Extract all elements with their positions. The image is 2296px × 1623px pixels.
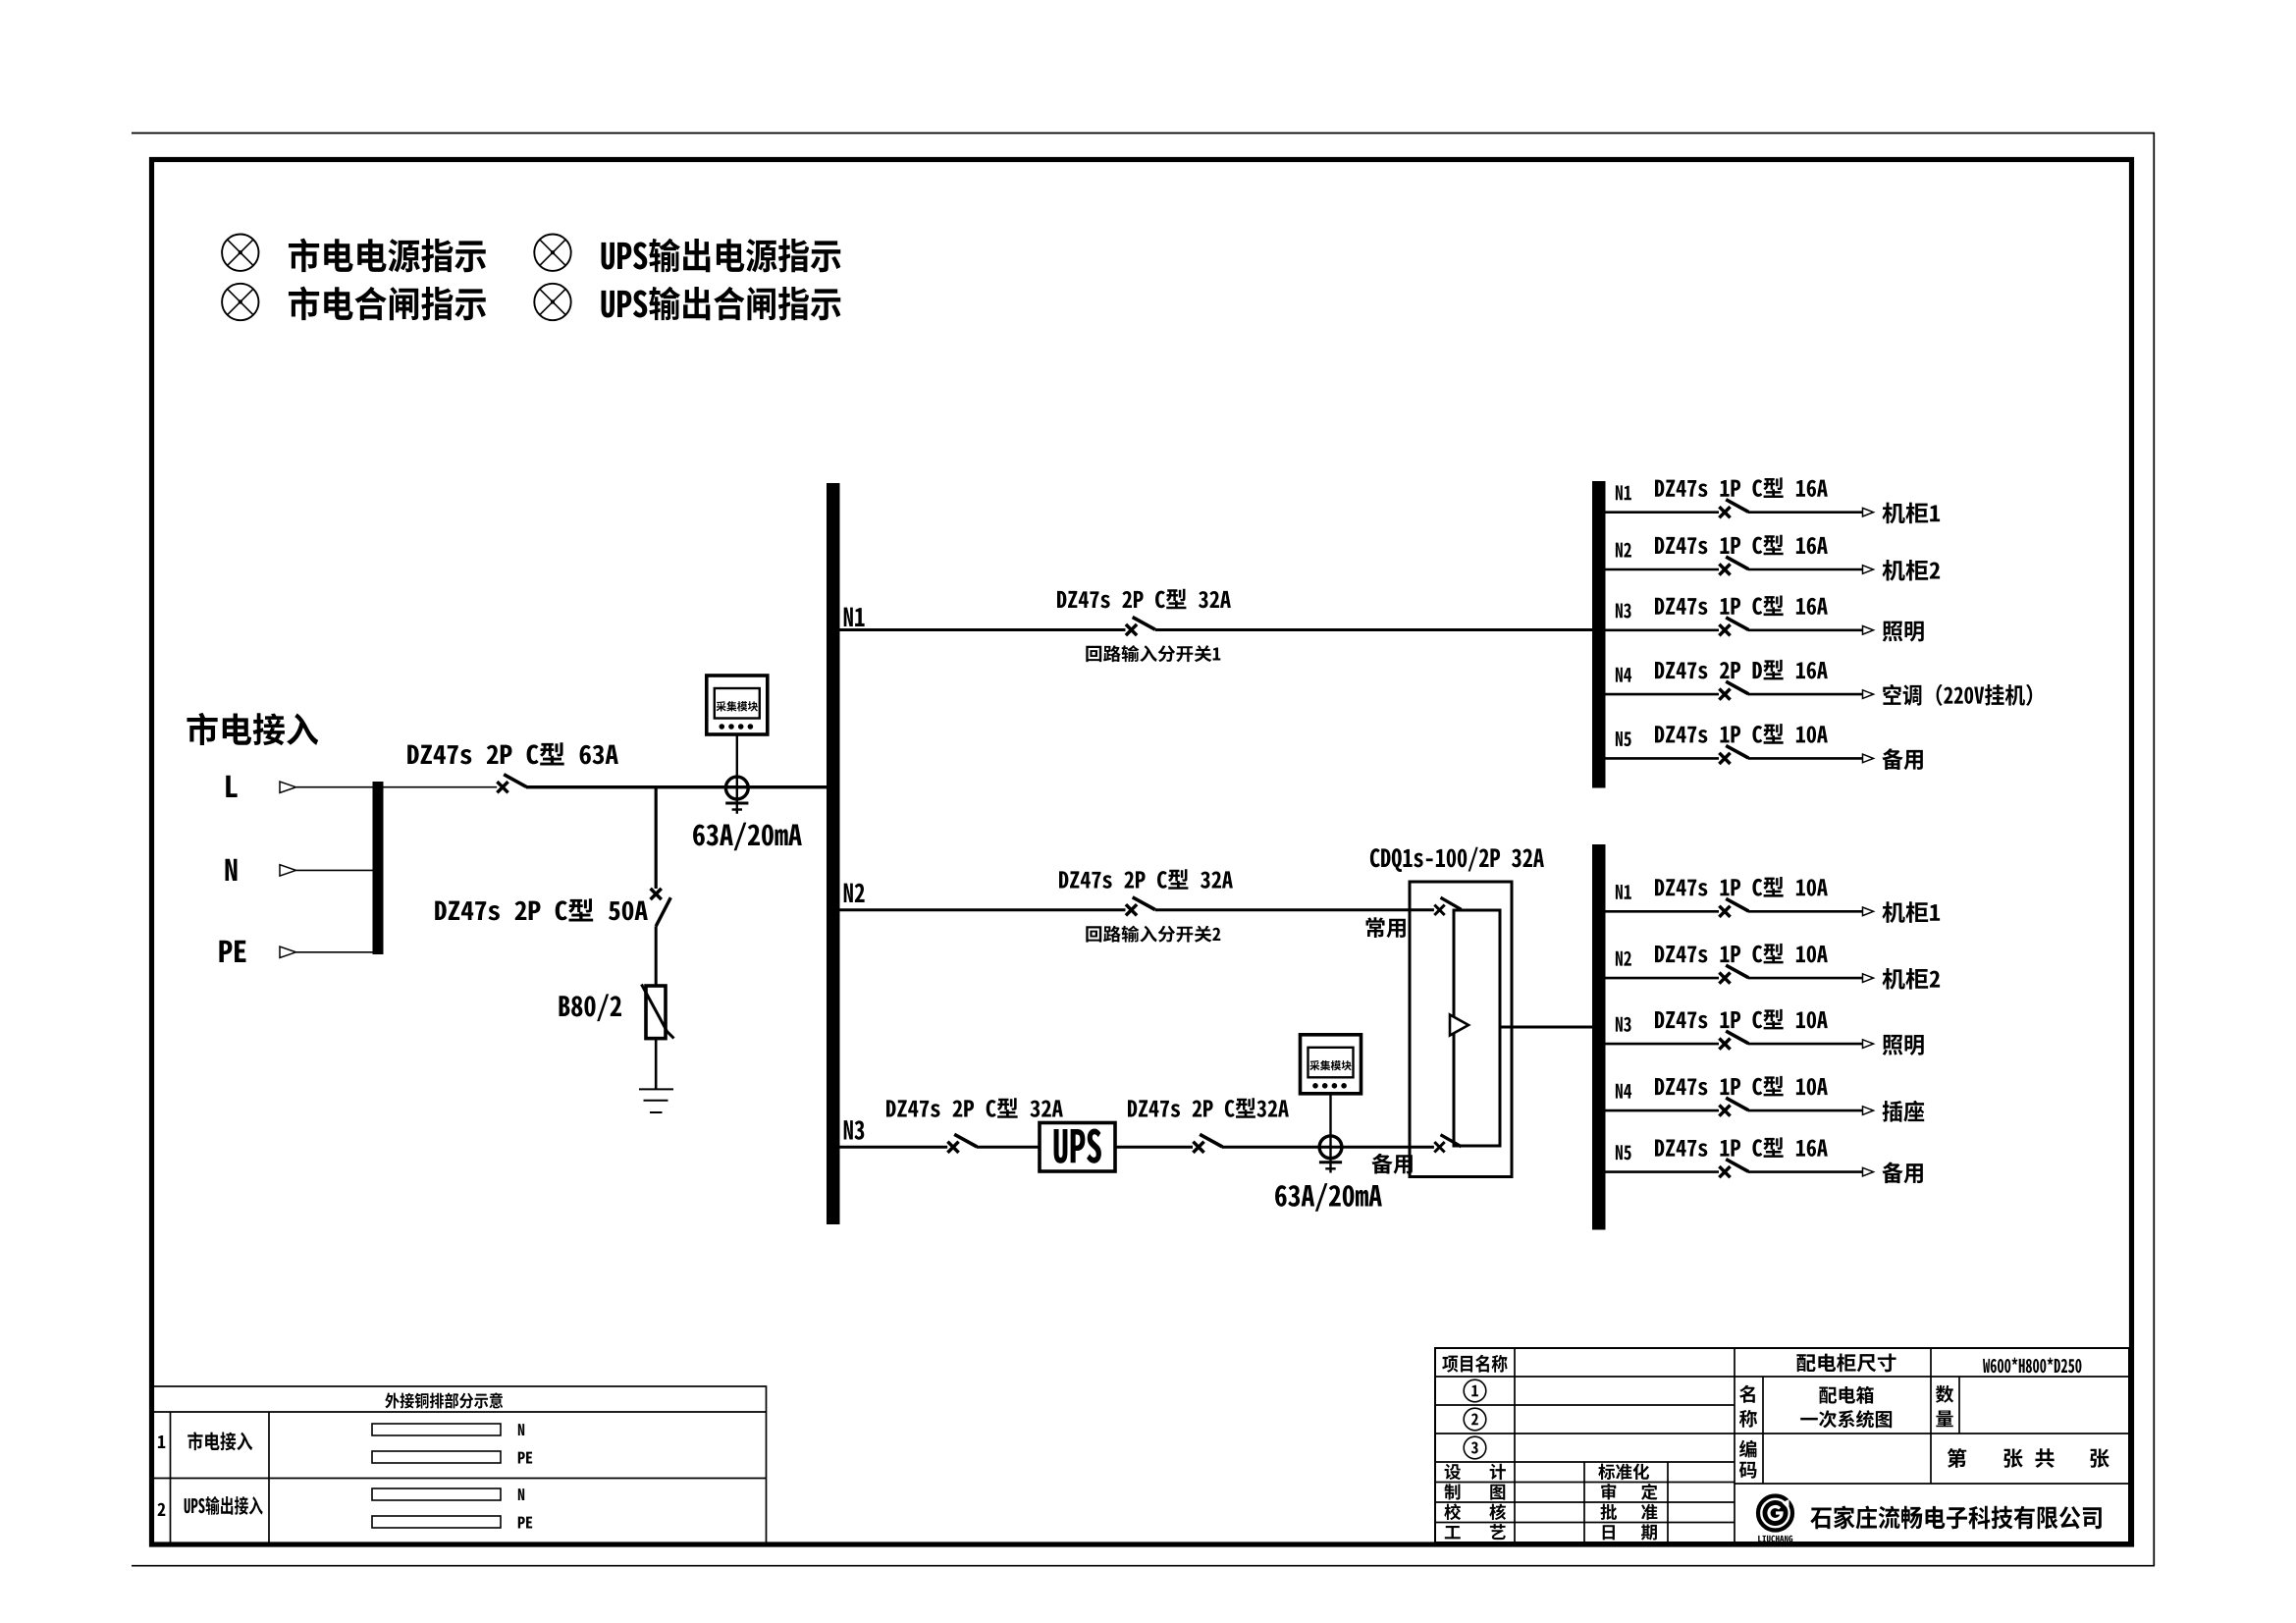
wire bus to breaker N1 [1606,511,1720,514]
wire QF1 to main busbar N [526,785,827,788]
branch busbar 1 (mains circuits) [1592,481,1606,788]
output arrow 空调（220V挂机） [1863,690,1874,699]
label DZ47s 2P C型32A [1128,1098,1289,1118]
wire breaker QF3 to UPS branch busbar [1155,628,1592,631]
wire breaker to output 机柜1 [1748,910,1863,913]
output arrow 机柜2 [1863,566,1874,574]
label B80/2 [560,994,621,1021]
label DZ47s 1P C型 16A [1655,596,1828,617]
wire breaker to output 照明 [1748,1043,1863,1046]
wire bus to breaker N2 [1606,568,1720,571]
node N2 on main bus [844,884,865,902]
node N2 on branch busbar 2 [1616,951,1631,966]
indicator lamp HL1 mains power [222,235,258,271]
output arrow 照明 [1863,1040,1874,1049]
wire main bus N3 to breaker QF5 [840,1146,948,1149]
wire junction to surge breaker QF2 [655,787,658,889]
label DZ47s 1P C型 16A [1655,535,1828,556]
label 63A/20mA [1275,1183,1382,1212]
node N1 on main bus [844,608,865,626]
wire bus to breaker N5 [1606,757,1720,760]
wire ATS output to UPS output busbar [1500,1026,1592,1029]
wire breaker to output 机柜2 [1748,977,1863,980]
node N3 on main bus [844,1120,865,1140]
label 空调（220V挂机） [1883,684,2032,706]
output arrow 插座 [1863,1107,1874,1115]
label UPS输出电源指示 [602,239,841,273]
label PE [219,941,245,962]
wire breaker to output 备用 [1748,1170,1863,1173]
wire breaker QF6 to ATS standby input [1222,1146,1434,1149]
label DZ47s 2P C型 32A [1059,869,1233,890]
label 机柜1 [1882,503,1940,524]
label 机柜2 [1882,968,1940,990]
indicator lamp HL2 mains closed [222,284,258,320]
wire breaker to output 机柜1 [1748,511,1863,514]
UPS U1 [1040,1123,1115,1172]
circuit breaker N4 DZ47s 1P C型 10A [1719,1098,1748,1116]
output arrow 照明 [1863,626,1874,635]
wire breaker QF5 to UPS [977,1146,1040,1149]
circuit breaker N5 DZ47s 1P C型 10A [1719,745,1748,764]
label UPS输出合闸指示 [602,287,841,321]
wire breaker to output 插座 [1748,1109,1863,1112]
circuit breaker N1 DZ47s 1P C型 10A [1719,898,1748,917]
output arrow 机柜1 [1863,508,1874,516]
label DZ47s 1P C型 10A [1655,724,1828,744]
wire breaker to output 机柜2 [1748,568,1863,571]
label 照明 [1883,1035,1924,1055]
circuit breaker N2 DZ47s 1P C型 10A [1719,965,1748,984]
wire bus to breaker N4 [1606,1109,1720,1112]
branch busbar 2 (UPS circuits) [1592,844,1606,1230]
label 回路输入分开关1 [1086,645,1220,662]
label 机柜2 [1882,560,1940,581]
wire L to input bus [296,786,374,788]
indicator lamp HL3 UPS output power [534,235,570,271]
label DZ47s 1P C型 10A [1655,944,1828,964]
main busbar N (market power) [827,483,840,1224]
node N1 on branch busbar 2 [1616,885,1631,899]
output arrow 备用 [1863,754,1874,763]
wire bus to breaker N2 [1606,977,1720,980]
wire UPS to breaker QF6 [1115,1146,1193,1149]
output arrow 备用 [1863,1167,1874,1176]
label 63A/20mA [693,823,802,851]
label 市电合闸指示 [289,287,486,321]
label 市电接入 mains incoming [187,713,318,745]
input terminal busbar [373,782,384,954]
wire breaker to output 照明 [1748,628,1863,631]
label L [226,776,237,797]
label 插座 [1883,1101,1925,1122]
label DZ47s 2P C型 32A [886,1098,1063,1118]
ground [639,1089,673,1112]
terminal arrow PE [280,947,296,957]
label CDQ1s-100/2P 32A [1370,847,1544,872]
node N3 on branch busbar 1 [1616,603,1631,618]
node N2 on branch busbar 1 [1616,543,1631,558]
wire bus to breaker N4 [1606,693,1720,696]
node N3 on branch busbar 2 [1616,1017,1631,1032]
output arrow 机柜1 [1863,907,1874,916]
circuit breaker N4 DZ47s 2P D型 16A [1719,681,1748,700]
circuit breaker N1 DZ47s 1P C型 16A [1719,500,1748,518]
output arrow 机柜2 [1863,974,1874,983]
terminal arrow N [280,865,296,876]
circuit breaker QF6 DZ47s 2P C型32A UPS output [1193,1134,1222,1153]
wire bus to breaker N3 [1606,1043,1720,1046]
circuit breaker N3 DZ47s 1P C型 16A [1719,618,1748,636]
indicator lamp HL4 UPS output closed [534,284,570,320]
node N5 on branch busbar 1 [1616,731,1631,746]
wire PE to input bus [296,951,374,953]
label 照明 [1883,622,1924,642]
label DZ47s 2P C型 63A [407,742,618,765]
ATS normal contact [1434,897,1461,915]
wire input bus to breaker QF1 [384,786,498,788]
label DZ47s 2P D型 16A [1655,660,1828,680]
wire N to input bus [296,869,374,871]
circuit breaker N2 DZ47s 1P C型 16A [1719,557,1748,575]
circuit breaker QF5 DZ47s 2P C型 32A UPS input [947,1134,977,1153]
label 回路输入分开关2 [1086,926,1220,943]
node N4 on branch busbar 2 [1616,1084,1631,1099]
circuit breaker QF2 DZ47s 2P C型 50A [651,889,671,926]
label 机柜1 [1882,901,1940,923]
label DZ47s 1P C型 10A [1655,877,1828,897]
ATS actuator pointer [1450,1015,1468,1036]
current sensor T2 with collection module [1301,1035,1362,1173]
circuit breaker N5 DZ47s 1P C型 16A [1719,1160,1748,1178]
circuit breaker QF4 DZ47s 2P C型 32A loop 2 [1126,897,1155,916]
label DZ47s 1P C型 10A [1655,1009,1828,1030]
label DZ47s 1P C型 10A [1655,1076,1828,1097]
label DZ47s 1P C型 16A [1655,477,1828,498]
label 市电电源指示 [289,239,486,273]
wire arrester to ground [655,1039,658,1090]
label 备用 standby [1371,1154,1412,1174]
circuit breaker QF1 DZ47s 2P C型 63A [497,775,526,793]
node N5 on branch busbar 2 [1616,1145,1631,1160]
label N [226,859,238,881]
label DZ47s 1P C型 16A [1655,1137,1828,1158]
wire breaker QF4 to ATS normal input [1155,908,1434,911]
circuit breaker QF3 DZ47s 2P C型 32A loop 1 [1126,618,1155,636]
ATS standby contact [1434,1135,1461,1153]
label 备用 [1882,1162,1922,1183]
current sensor T1 with collection module [707,676,768,814]
wire bus to breaker N5 [1606,1170,1720,1173]
wire breaker to output 空调（220V挂机） [1748,693,1863,696]
wire QF2 to surge arrester [655,926,658,986]
label DZ47s 2P C型 50A [435,898,648,921]
wire bus to breaker N1 [1606,910,1720,913]
wire breaker to output 备用 [1748,757,1863,760]
terminal arrow L [280,782,296,792]
circuit breaker N3 DZ47s 1P C型 10A [1719,1031,1748,1050]
surge arrester F1 B80/2 [642,985,674,1039]
node N1 on branch busbar 1 [1616,485,1631,500]
label DZ47s 2P C型 32A [1057,589,1231,610]
wire main bus N2 to breaker [840,908,1126,911]
automatic transfer switch Q1 CDQ1s-100/2P [1410,882,1512,1177]
label 常用 normal [1366,917,1406,938]
wire bus to breaker N3 [1606,628,1720,631]
node N4 on branch busbar 1 [1616,668,1631,682]
label 备用 [1882,748,1922,770]
wire main bus N1 to breaker [840,628,1126,631]
